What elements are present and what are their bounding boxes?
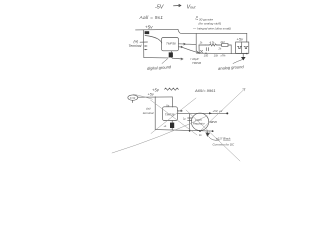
pin arrow U2 out 1 bbox=[178, 110, 183, 111]
svg-text:1k: 1k bbox=[199, 134, 202, 137]
svg-text:C.W: C.W bbox=[130, 96, 136, 100]
end dot on output wire bbox=[226, 112, 228, 114]
scribble stroke S4 (circle cross-out up) bbox=[201, 89, 246, 131]
resistor R2 box bbox=[222, 44, 228, 47]
battery tick marks on left vertical bbox=[140, 42, 148, 50]
leader analog ground bbox=[233, 60, 243, 64]
IC U2 TMP36 (lower) bbox=[163, 107, 178, 121]
wire arrow from ground junction bbox=[172, 58, 183, 60]
svg-text:+7V6: +7V6 bbox=[211, 120, 218, 124]
ground arrow (lower) bbox=[206, 131, 210, 136]
svg-text:2k: 2k bbox=[218, 47, 222, 51]
capacitor C1 plates bbox=[188, 118, 192, 120]
pin U3 right bbox=[209, 121, 213, 123]
connector blob on U2 ground pin bbox=[170, 123, 174, 128]
wire from pot to +5V rail (lower) bbox=[138, 96, 173, 98]
wire from connector to IC bbox=[145, 36, 162, 44]
scribble stroke S1 (long cross-out) bbox=[112, 116, 207, 153]
terminal block (right) bbox=[236, 42, 249, 53]
wire network top bbox=[199, 44, 206, 46]
svg-text:+5v: +5v bbox=[237, 37, 245, 42]
arrowhead on output wire bbox=[209, 112, 212, 114]
wire network left vertical bbox=[198, 45, 200, 53]
junction dot under terminal block bbox=[246, 53, 248, 55]
svg-text:4.7k: 4.7k bbox=[210, 41, 216, 45]
svg-text:Terminal: Terminal bbox=[129, 44, 142, 48]
scribble stroke S2 (box X forward) bbox=[151, 98, 196, 134]
wire U2 output to +5V out bbox=[178, 112, 228, 114]
wire left vertical (lower) bbox=[154, 97, 156, 130]
IC U1 ground pin bbox=[170, 51, 172, 58]
wire digital bottom rail bbox=[144, 57, 168, 59]
pin arrow U1 out 1 bbox=[179, 43, 197, 45]
svg-text:x7%: x7% bbox=[220, 54, 227, 57]
connector blob on ground pin bbox=[169, 52, 173, 57]
svg-text:Aall = 9x1: Aall = 9x1 bbox=[139, 15, 164, 21]
svg-text:10k: 10k bbox=[214, 54, 219, 58]
svg-text:Common for DC: Common for DC bbox=[213, 143, 236, 147]
ground symbol (analog) bbox=[241, 54, 246, 61]
connector blob (pin header) on +5V rail bbox=[145, 31, 150, 34]
wire drop to terminal block bbox=[246, 33, 248, 42]
svg-text:— Integral wire (ultra small): — Integral wire (ultra small) bbox=[192, 27, 231, 31]
svg-text:2k: 2k bbox=[199, 41, 203, 44]
svg-text:digital ground: digital ground bbox=[147, 64, 172, 71]
pot wiper stub bbox=[131, 100, 133, 102]
wire +5V top rail (upper circuit, left section) bbox=[136, 28, 179, 31]
label (w) terminal (lower) bbox=[143, 107, 154, 115]
IC U2 ground pin bbox=[171, 121, 173, 130]
svg-text:TMP36: TMP36 bbox=[166, 41, 176, 45]
wire left vertical (battery + terminal) bbox=[143, 30, 145, 58]
wire network right vertical bbox=[230, 45, 232, 54]
svg-text:+5v: +5v bbox=[145, 25, 153, 30]
svg-text:+5V, +V: +5V, +V bbox=[213, 109, 224, 113]
junction dot rail/regulator bbox=[199, 130, 201, 132]
end dot bottom rail bbox=[212, 130, 214, 132]
label analog ground bbox=[218, 64, 245, 71]
wire bottom rail (lower) bbox=[155, 130, 212, 132]
wire capacitor branch vertical bbox=[189, 113, 191, 130]
resistor R1 zigzag bbox=[206, 44, 222, 46]
svg-text:Vout: Vout bbox=[187, 5, 197, 11]
leader to 2.5 Black note bbox=[209, 137, 220, 141]
potentiometer CW (ellipse) bbox=[128, 95, 138, 100]
svg-text:TMP36: TMP36 bbox=[192, 61, 201, 65]
IC U1 TMP36 (upper) bbox=[162, 38, 179, 51]
svg-text:analog ground: analog ground bbox=[218, 64, 245, 71]
wire pin2 to junction bbox=[183, 47, 199, 52]
scribble stroke S3 (box X back) bbox=[151, 100, 198, 135]
svg-text:1μ: 1μ bbox=[183, 118, 186, 121]
pin arrow U1 out 2 bbox=[179, 46, 183, 48]
capacitor C2 bars bbox=[206, 48, 208, 51]
leader digital ground bbox=[162, 59, 168, 64]
junction dot rail/cap bbox=[189, 130, 191, 132]
junction cluster bbox=[198, 51, 206, 55]
legend note: 30 gauge wire for analog stuff bbox=[192, 15, 231, 31]
svg-text:-5V: -5V bbox=[155, 5, 165, 11]
label 10uF capacitor note bbox=[190, 57, 201, 65]
label (w) Terminal (upper) bbox=[129, 39, 142, 48]
wire top rail right section bbox=[178, 29, 247, 33]
svg-text:+5v: +5v bbox=[148, 92, 155, 96]
svg-text:(for analog stuff): (for analog stuff) bbox=[199, 22, 222, 26]
wire network top right bbox=[228, 44, 231, 46]
svg-text:100: 100 bbox=[204, 54, 209, 58]
svg-text:2k4: 2k4 bbox=[220, 41, 226, 44]
wire from rail down to network bbox=[196, 34, 199, 53]
stray stroke from pot top bbox=[134, 94, 153, 99]
wire rail corner down to U2 bbox=[171, 97, 173, 107]
svg-text:(w): (w) bbox=[134, 39, 139, 43]
svg-text:terminal: terminal bbox=[143, 111, 154, 115]
label +5V RAA (lower title) bbox=[152, 88, 160, 93]
regulator U3 (round can) bbox=[191, 113, 208, 130]
wire analog bottom rail bbox=[197, 52, 247, 54]
scribble stroke S5 (to corner) bbox=[186, 110, 240, 161]
svg-text:A65/= 9961: A65/= 9961 bbox=[194, 88, 216, 93]
svg-text:+1: +1 bbox=[164, 124, 168, 128]
resistor squiggle in title bbox=[165, 88, 179, 90]
